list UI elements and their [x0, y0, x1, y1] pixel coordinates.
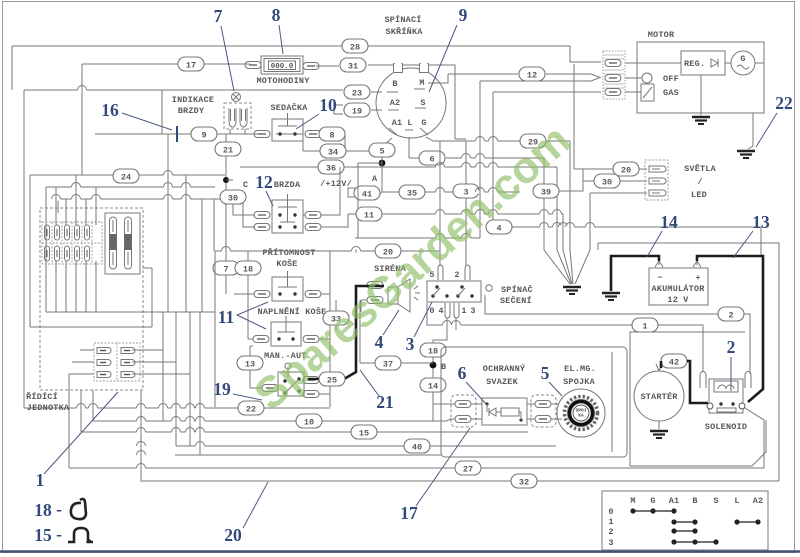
wire row 15	[81, 390, 528, 480]
svg-text:21: 21	[223, 146, 233, 156]
label NAPLNENI KOSE	[258, 306, 327, 317]
svg-text:INDIKACE: INDIKACE	[172, 95, 214, 105]
node B junction	[430, 362, 447, 372]
svg-text:SVĚTLA: SVĚTLA	[684, 163, 717, 174]
node ellipse 14b	[420, 378, 446, 392]
node ellipse 3	[453, 184, 479, 198]
wire jumps	[52, 86, 595, 470]
svg-text:7: 7	[214, 6, 223, 26]
wire 17 row	[82, 63, 250, 65]
node ellipse 25	[319, 372, 345, 386]
svg-text:23: 23	[352, 89, 362, 99]
wire row y187	[46, 187, 215, 312]
harness enclosure outer box	[441, 347, 627, 457]
svg-text:A1: A1	[669, 496, 680, 506]
node ellipse 2	[718, 307, 744, 321]
svg-text:L: L	[734, 496, 739, 506]
svg-text:S: S	[420, 98, 425, 108]
wire row y227	[493, 227, 761, 257]
node ellipse 34	[320, 144, 346, 158]
wire row y214	[348, 214, 563, 250]
svg-text:G: G	[421, 118, 426, 128]
harness connector block left	[451, 395, 476, 427]
node ellipse 27	[455, 461, 481, 475]
svg-text:3: 3	[608, 538, 613, 548]
node ellipse 21	[215, 142, 241, 156]
wire row y251	[215, 251, 440, 407]
svg-text:35: 35	[407, 189, 417, 199]
label RIDICI JEDNOTKA	[26, 391, 70, 413]
svg-text:-: -	[56, 524, 62, 544]
node ellipse 11	[356, 207, 382, 221]
wire 30 light row	[583, 169, 647, 181]
wire row 32	[140, 480, 779, 482]
label SIRENA	[374, 263, 407, 274]
svg-text:16: 16	[101, 100, 119, 120]
seat switch SEDACKA	[270, 102, 308, 141]
svg-text:30: 30	[602, 178, 612, 188]
svg-text:SKŘÍŇKA: SKŘÍŇKA	[385, 26, 423, 37]
wire 36 row	[240, 166, 557, 168]
svg-text:SVAZEK: SVAZEK	[486, 377, 519, 387]
svg-text:BRZDA: BRZDA	[274, 180, 301, 190]
callout 15 key	[34, 524, 93, 545]
ground starter	[650, 421, 668, 438]
motor connector stack	[603, 51, 625, 99]
solenoid SOLENOID	[705, 379, 747, 432]
svg-text:9: 9	[201, 131, 206, 141]
ignition switch body	[376, 63, 446, 139]
callout 10	[296, 95, 337, 129]
svg-text:M: M	[630, 496, 635, 506]
label INDIKACE BRZDY	[172, 95, 214, 116]
svg-text:12: 12	[527, 71, 537, 81]
svg-text:A2: A2	[753, 496, 764, 506]
wire 28 top bus to motor pin1	[12, 46, 601, 62]
callout 12	[255, 172, 273, 206]
callout 1	[36, 392, 118, 490]
label PRITOMNOST KOSE	[262, 247, 315, 269]
connection table box	[602, 491, 768, 550]
wire lower block leads	[69, 350, 190, 408]
node C junction	[223, 177, 248, 190]
node ellipse 18b	[420, 343, 446, 357]
control unit lower connector block	[94, 343, 140, 381]
svg-text:M: M	[419, 78, 424, 88]
label OCHRANNY SVAZEK	[483, 363, 526, 387]
node ellipse 1	[632, 318, 658, 332]
svg-text:10: 10	[319, 95, 337, 115]
brake adjust tick	[176, 126, 178, 142]
callout 7	[214, 6, 234, 91]
callout 11	[218, 302, 268, 329]
node ellipse 18a	[235, 261, 261, 275]
callout 17	[400, 428, 470, 523]
callout 3	[406, 302, 432, 354]
ground frame right	[737, 151, 755, 158]
wire 41	[355, 192, 382, 194]
node ellipse 20a	[375, 244, 401, 258]
svg-text:39: 39	[541, 188, 551, 198]
svg-text:SEČENÍ: SEČENÍ	[500, 295, 532, 306]
svg-text:12 V: 12 V	[667, 295, 689, 305]
callout 22	[756, 93, 793, 147]
wire row y199	[58, 199, 233, 213]
callout 21	[360, 370, 394, 412]
hour meter side connectors	[245, 62, 319, 70]
svg-text:PŘÍTOMNOST: PŘÍTOMNOST	[262, 247, 315, 258]
callout 6	[458, 363, 486, 404]
brake switch connectors	[254, 212, 321, 231]
wire row 22	[24, 407, 330, 409]
wire 39 row	[533, 169, 583, 191]
ground chassis	[563, 287, 581, 294]
svg-text:27: 27	[463, 465, 473, 475]
wire to motor pin3	[493, 92, 601, 227]
svg-text:22: 22	[775, 93, 793, 113]
node ellipse 35	[399, 185, 425, 199]
svg-text:2: 2	[727, 337, 736, 357]
svg-text:3: 3	[470, 306, 475, 316]
label BRZDA C	[274, 180, 301, 190]
watermark SparesGarden.com	[245, 115, 580, 419]
node ellipse 37	[375, 356, 401, 370]
fuse F2 15A	[125, 217, 132, 269]
svg-text:34: 34	[328, 148, 338, 158]
wire bold battery plus to solenoid	[697, 256, 763, 402]
connection table content	[608, 496, 763, 548]
svg-text:30: 30	[228, 194, 238, 204]
svg-text:10: 10	[304, 418, 314, 428]
wire 9 row with brake tick	[95, 133, 255, 135]
wire motor to frame ground	[748, 113, 753, 149]
protective module box	[482, 398, 527, 425]
callout 13	[733, 212, 770, 258]
siren speaker	[388, 279, 420, 312]
battery AKUMULATOR	[649, 261, 708, 305]
wire row 327	[30, 268, 152, 327]
svg-text:15: 15	[359, 429, 369, 439]
wire secerni pins down	[433, 318, 456, 421]
wire 31 row to vertical x455	[316, 65, 455, 139]
wire harness row joins	[433, 392, 562, 419]
wire 12 double lead to motor pin2	[448, 74, 600, 238]
svg-text:7: 7	[223, 265, 228, 275]
wire man-aut lower right	[319, 380, 330, 394]
fuse F1 15A	[110, 217, 117, 269]
node ellipse 23	[344, 85, 370, 99]
regulator REG	[625, 51, 731, 75]
left frame vertical x24	[23, 90, 25, 408]
svg-text:2: 2	[728, 311, 733, 321]
wire row y158	[409, 158, 544, 250]
wire third light row	[590, 193, 647, 250]
node ellipse 9	[191, 127, 217, 141]
svg-text:0: 0	[608, 507, 613, 517]
svg-text:LED: LED	[691, 190, 707, 200]
brake switch BRZDA	[272, 194, 303, 233]
svg-text:0: 0	[429, 306, 434, 316]
svg-text:9: 9	[459, 5, 468, 25]
node ellipse 29	[520, 134, 546, 148]
svg-text:6: 6	[458, 363, 467, 383]
svg-text:22: 22	[246, 405, 256, 415]
svg-text:A2: A2	[390, 98, 401, 108]
wire switch G down to row141	[426, 137, 433, 141]
node ellipse 33	[323, 311, 349, 325]
svg-text:6: 6	[429, 155, 434, 165]
basket full switch	[271, 316, 301, 346]
wire bold siren loop	[308, 286, 384, 379]
ground motor	[692, 117, 710, 124]
node ellipse 17	[178, 57, 204, 71]
svg-text:+: +	[695, 273, 700, 283]
node ellipse 6	[419, 151, 445, 165]
svg-text:B: B	[441, 362, 446, 372]
svg-text:1: 1	[608, 517, 613, 527]
svg-text:18: 18	[34, 500, 52, 520]
harness connector block right	[531, 395, 556, 427]
svg-text:ŘÍDÍCÍ: ŘÍDÍCÍ	[26, 391, 58, 402]
wire row 27	[69, 408, 764, 468]
node ellipse 19	[344, 103, 370, 117]
wire 20 light row	[574, 64, 647, 169]
svg-text:20: 20	[621, 166, 631, 176]
wire 37 row	[360, 300, 433, 363]
generator G circle	[731, 51, 764, 75]
label EL MG SPOJKA	[563, 364, 596, 387]
node A junction	[372, 160, 385, 184]
callout 18 key	[34, 499, 86, 520]
seat switch connectors	[254, 131, 321, 138]
node ellipse 8	[319, 127, 345, 141]
wire siren stub	[361, 300, 367, 312]
svg-text:NAPLNĚNÍ KOŠE: NAPLNĚNÍ KOŠE	[258, 306, 327, 317]
svg-text:SPÍNACÍ: SPÍNACÍ	[384, 14, 421, 25]
callout 8	[272, 5, 283, 54]
svg-text:MOTOHODINY: MOTOHODINY	[256, 76, 310, 86]
svg-text:REG.: REG.	[684, 59, 705, 69]
node ellipse 22	[238, 401, 264, 415]
svg-text:A1: A1	[392, 118, 403, 128]
node ellipse 13	[237, 356, 263, 370]
wire lamp drops	[230, 129, 245, 134]
node ellipse 24	[113, 169, 139, 183]
wire A junction branches	[358, 157, 382, 238]
svg-text:37: 37	[383, 360, 393, 370]
electromagnetic clutch	[557, 389, 605, 437]
svg-text:2: 2	[454, 270, 459, 280]
node ellipse 10	[296, 414, 322, 428]
svg-text:36: 36	[326, 164, 336, 174]
svg-text:B: B	[692, 496, 697, 506]
wire brzda right to verticals	[303, 167, 348, 227]
man-aut switch	[278, 363, 304, 396]
wire row 312	[46, 311, 215, 313]
svg-text:SPOJKA: SPOJKA	[563, 377, 596, 387]
svg-text:32: 32	[519, 478, 529, 488]
svg-text:SPÍNAČ: SPÍNAČ	[501, 284, 533, 295]
svg-text:13: 13	[245, 360, 255, 370]
node ellipse 7	[213, 261, 239, 275]
basket presence switch	[272, 271, 303, 301]
svg-text:KA: KA	[578, 413, 584, 419]
svg-text:1: 1	[461, 306, 466, 316]
svg-text:13: 13	[752, 212, 770, 232]
svg-text:5: 5	[379, 147, 384, 157]
label MOTOR	[648, 30, 675, 40]
svg-text:3: 3	[406, 334, 415, 354]
node ellipse 36	[318, 160, 344, 174]
svg-text:17: 17	[400, 503, 418, 523]
wire to ellipse 30 and brzda	[226, 180, 255, 227]
wire reg to ground	[700, 75, 702, 115]
wire vertical x82	[81, 64, 83, 175]
wire row 40	[176, 312, 556, 446]
callout 19	[213, 379, 262, 400]
svg-text:JEDNOTKA: JEDNOTKA	[27, 403, 70, 413]
wire row 10	[93, 312, 455, 421]
control unit dashed box	[40, 208, 143, 390]
svg-text:A: A	[372, 174, 378, 184]
harness enclosure inner box	[611, 352, 613, 452]
wire 1 row	[427, 303, 703, 371]
gas switch	[625, 84, 679, 101]
svg-text:1: 1	[642, 322, 647, 332]
svg-text:B: B	[392, 79, 397, 89]
svg-text:2: 2	[608, 527, 613, 537]
off switch	[625, 73, 679, 84]
wire bold battery minus to ground	[611, 256, 659, 291]
svg-text:-: -	[56, 499, 62, 519]
wire verticals x440 x466	[440, 139, 466, 266]
left frame vertical x12	[11, 46, 13, 90]
wire switch L down	[408, 137, 410, 158]
svg-text:GAS: GAS	[663, 88, 679, 98]
wire full row	[248, 251, 330, 407]
svg-text:20: 20	[224, 525, 242, 545]
node ellipse 30	[220, 190, 246, 204]
node ellipse 40	[404, 439, 430, 453]
control unit pin block	[42, 222, 102, 264]
wire row y141	[433, 141, 570, 250]
hour meter MOTOHODINY	[256, 56, 310, 86]
node ellipse 20b	[613, 162, 639, 176]
wire x226 x248 verticals	[226, 251, 248, 339]
svg-text:18: 18	[243, 265, 253, 275]
wire 34 row	[303, 141, 382, 151]
callout 16	[101, 100, 172, 130]
chassis ground cluster wires	[544, 250, 590, 284]
svg-text:EL.MG.: EL.MG.	[564, 364, 596, 374]
callout 2	[727, 337, 736, 391]
svg-text:L: L	[407, 118, 412, 128]
svg-text:11: 11	[218, 307, 235, 327]
node ellipse 12	[519, 67, 545, 81]
label +12V	[320, 179, 352, 189]
callout 9	[429, 5, 468, 92]
label SVETLA LED	[684, 163, 717, 200]
starter enclosure box	[630, 332, 766, 466]
svg-text:AKUMULÁTOR: AKUMULÁTOR	[651, 283, 705, 294]
svg-text:SEDAČKA: SEDAČKA	[270, 102, 308, 113]
svg-text:KOŠE: KOŠE	[276, 258, 297, 269]
svg-text:000.0: 000.0	[271, 63, 294, 71]
wire x557 ground branch	[556, 167, 558, 250]
wire row bottom frame	[175, 312, 441, 455]
wire bold 42 to solenoid	[661, 361, 708, 403]
wire row y238	[355, 237, 480, 239]
mow switch pins bottom	[429, 303, 475, 318]
svg-text:1: 1	[36, 470, 45, 490]
mow switch SPINAC SECENI	[427, 281, 533, 306]
node ellipse 39	[533, 184, 559, 198]
node ellipse 28	[342, 39, 368, 53]
svg-text:5: 5	[541, 363, 550, 383]
label SPINACI SKRINKA	[384, 14, 423, 37]
svg-text:SOLENOID: SOLENOID	[705, 422, 747, 432]
svg-text:11: 11	[364, 211, 374, 221]
svg-text:STARTÉR: STARTÉR	[640, 391, 678, 402]
svg-text:OCHRANNÝ: OCHRANNÝ	[483, 363, 526, 374]
svg-text:8: 8	[272, 5, 281, 25]
svg-text:25: 25	[327, 376, 337, 386]
svg-text:24: 24	[121, 173, 131, 183]
svg-text:19: 19	[352, 107, 362, 117]
svg-text:15: 15	[34, 525, 52, 545]
callout 14	[647, 212, 678, 257]
svg-text:−: −	[657, 273, 662, 283]
label MAN-AUT	[264, 351, 312, 361]
wire 23 row to switch B	[24, 90, 382, 92]
wire 2 row	[485, 295, 750, 374]
wire presence row	[234, 293, 330, 295]
svg-text:12: 12	[255, 172, 273, 192]
svg-text:C: C	[243, 180, 248, 190]
starter STARTER	[634, 364, 684, 421]
brake indicator lamp unit	[224, 93, 251, 130]
wire vertical x226 C-branch	[225, 134, 227, 251]
node ellipse 41	[354, 186, 380, 200]
wire lamp to sedacka row	[255, 133, 303, 135]
svg-text:17: 17	[186, 61, 196, 71]
svg-text:40: 40	[412, 443, 422, 453]
border bottom dark line	[0, 550, 800, 553]
node ellipse 32	[511, 474, 537, 488]
wire 19 row to switch A2	[343, 109, 382, 111]
svg-text:4: 4	[375, 332, 384, 352]
svg-text:14: 14	[428, 382, 438, 392]
wire left bus verticals	[162, 90, 214, 312]
callout 4	[375, 310, 399, 352]
wire 33 vertical	[335, 300, 337, 330]
svg-text:/+12V/: /+12V/	[320, 179, 352, 189]
wire feeders into pin block	[56, 175, 96, 312]
motor box	[637, 42, 764, 113]
wire switch A1 to 5	[382, 138, 392, 147]
node ellipse 42	[661, 354, 687, 368]
node ellipse 5	[369, 143, 395, 157]
svg-text:4: 4	[438, 306, 443, 316]
basket full connectors	[253, 336, 319, 343]
svg-text:OFF: OFF	[663, 74, 679, 84]
svg-text:G: G	[650, 496, 655, 506]
connector bracket +12V	[348, 188, 356, 197]
svg-text:14: 14	[660, 212, 678, 232]
callout 5	[541, 363, 562, 396]
wire solenoid right down	[745, 408, 764, 468]
svg-text:8: 8	[329, 131, 334, 141]
